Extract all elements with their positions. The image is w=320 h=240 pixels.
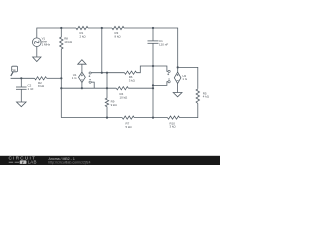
resistor R9 vertical [105,73,108,118]
wire U2 to ground [177,84,179,93]
wire rail A [11,77,35,79]
svg-text:8 kΩ: 8 kΩ [115,35,122,39]
svg-text:1 nF: 1 nF [28,87,34,91]
junction Vin/C2 [20,77,22,79]
voltage source V1 [33,38,42,47]
U1 plus sense terminal [89,72,91,74]
resistor R8 [60,28,63,49]
svg-text:2 kΩ: 2 kΩ [80,35,87,39]
capacitor C1 [152,28,154,41]
wire R8 down [60,49,62,118]
junction H2/C1vert [152,87,154,89]
svg-text:4 kΩ: 4 kΩ [203,95,210,99]
junction bottom/R9 [106,117,108,119]
wire U2 output to R5 [178,67,198,88]
resistor R6 [125,71,137,74]
wire top rail mid segment [88,27,112,29]
wire R5 down to bottom rail [181,103,198,117]
dependent source U2 [174,72,181,83]
wire R2 to R8 [47,77,62,79]
wire C1 vertical down [152,43,154,117]
svg-text:http://circuitlab.com/c/2jfz4: http://circuitlab.com/c/2jfz4 [48,160,90,164]
svg-text:1 G: 1 G [72,76,77,80]
svg-text:9 kΩ: 9 kΩ [111,103,118,107]
junction U1 bottom [81,87,83,89]
svg-text:3 kΩ: 3 kΩ [170,125,177,129]
junction U2 output [177,66,179,68]
wire plus-sense line [91,72,124,74]
U1 minus sense terminal [89,81,91,83]
wire top rail left segment [37,28,76,38]
svg-text:120 nF: 120 nF [159,42,168,46]
capacitor C2 [20,78,22,87]
svg-text:1 G: 1 G [182,77,187,81]
junction R8/railA [60,77,62,79]
node C1-top junction [152,27,154,29]
wire minus sense of U2 [153,82,168,86]
footer logo bolt box [20,160,27,164]
wire H2 right [128,87,153,89]
wire R6 jog to C1 vertical [137,66,169,73]
wire bottom mid [134,117,167,119]
svg-text:10 kΩ: 10 kΩ [64,40,73,44]
wire top rail right segment [124,28,178,73]
bottom rail [61,117,122,119]
resistor R5 vertical [196,89,199,103]
svg-text:1 MHz: 1 MHz [42,43,51,47]
wire V1 to ground [36,47,38,58]
U2 plus sense terminal [168,70,170,72]
resistor R2 [35,77,47,80]
resistor R1 [76,26,88,29]
resistor R3 [112,26,124,29]
U2 polarity marks [177,74,179,76]
footer logo dashes [9,161,19,163]
footer bar [0,156,220,165]
U1 polarity marks [81,73,179,80]
svg-text:10 kΩ: 10 kΩ [120,95,129,99]
ground U2 [173,93,182,97]
junction C1vert/minus-sense [152,84,154,86]
resistor R10 bottom right [168,116,180,119]
node R8-top junction [60,27,62,29]
ground C2 [17,102,27,107]
wire bottom right stub [180,117,181,119]
ground V1 [33,57,41,62]
resistor R4 [116,87,128,90]
wire H2 rail [61,87,116,89]
svg-text:3 kΩ: 3 kΩ [129,79,136,83]
junction R8/H2 [60,87,62,89]
resistor R7 bottom [122,116,134,119]
wire U1 bottom [81,83,83,89]
junction C1vert/plus [152,65,154,67]
node A junction [101,27,103,29]
junction bottom/C1vert [152,117,154,119]
wire U1 minus jog [91,82,94,88]
wire node A down [101,28,103,73]
svg-text:8 kΩ: 8 kΩ [38,84,45,88]
svg-text:LAB: LAB [28,160,37,165]
U2 minus sense terminal [168,81,170,83]
junction plus line/R9 vert [106,72,108,74]
flag Vin [12,66,18,72]
junction nodeA/plus line [101,72,103,74]
junction H2/R9 [106,87,108,89]
op-amp stage U1 dependent source [79,72,86,82]
svg-text:5 kΩ: 5 kΩ [126,125,133,129]
U1 supply flag arrow [81,64,83,72]
